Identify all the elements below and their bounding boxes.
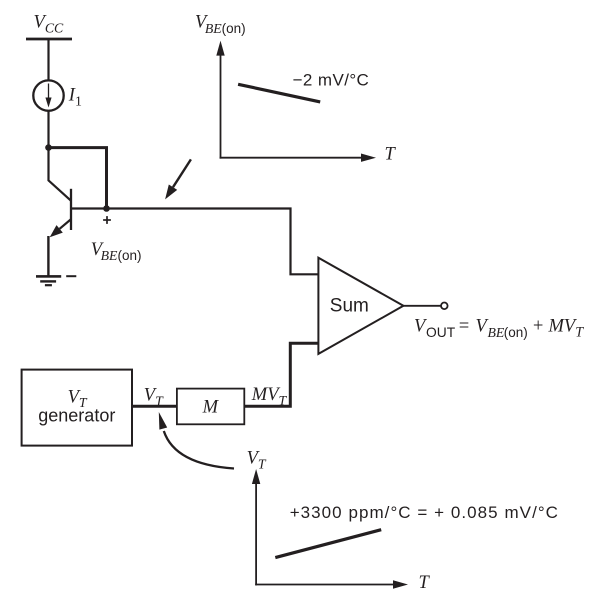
ground	[36, 275, 61, 286]
bottom graph axes	[252, 469, 408, 589]
annotation arrow to VBE wire	[165, 159, 191, 199]
svg-text:=: =	[458, 317, 470, 337]
box VT generator	[22, 370, 132, 446]
label minus	[66, 275, 76, 277]
svg-text:Sum: Sum	[330, 296, 369, 317]
transistor Q1	[49, 147, 107, 238]
svg-text:+3300 ppm/°C = + 0.085 mV/°C: +3300 ppm/°C = + 0.085 mV/°C	[290, 503, 559, 522]
wire VT gen to M (VT net, thick)	[132, 405, 178, 408]
wire base junction to sum input (VBE net)	[107, 209, 319, 275]
svg-text:BE: BE	[488, 325, 505, 340]
svg-text:+: +	[532, 317, 544, 337]
wire VCC to I1	[47, 39, 49, 81]
wire M to sum input (MVT net, thick)	[244, 343, 318, 406]
output terminal	[441, 303, 448, 310]
slope line +3300ppm	[275, 530, 381, 558]
svg-text:generator: generator	[38, 406, 115, 426]
svg-text:M: M	[202, 397, 220, 417]
wire node to base (diode connection, thick)	[49, 148, 107, 209]
sum block U1	[318, 258, 403, 354]
output wire	[403, 305, 440, 307]
node base junction	[103, 205, 110, 212]
svg-text:T: T	[419, 573, 431, 593]
wire I1 to node	[47, 111, 49, 149]
svg-text:T: T	[385, 144, 397, 164]
svg-text:OUT: OUT	[426, 325, 456, 340]
power rail VCC	[26, 38, 72, 41]
label plus	[103, 216, 111, 224]
top graph axes	[216, 41, 376, 162]
slope line -2mV	[238, 84, 320, 102]
box M multiplier	[177, 389, 244, 425]
curved annotation arrow to VT wire	[159, 412, 234, 469]
svg-text:−2 mV/°C: −2 mV/°C	[293, 70, 370, 89]
svg-text:(on): (on)	[504, 325, 528, 340]
node collector-base tie	[45, 144, 52, 151]
current source I1	[33, 80, 63, 110]
emitter wire	[47, 236, 49, 277]
label VOUT formula	[414, 317, 584, 341]
